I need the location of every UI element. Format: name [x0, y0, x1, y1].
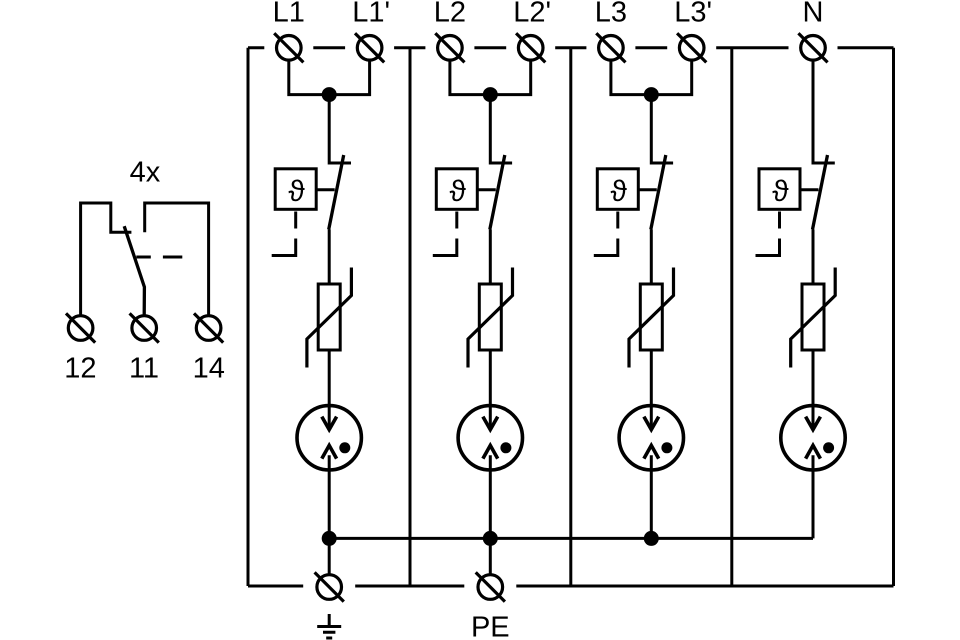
channel partition 1: [409, 48, 412, 586]
spark gap upper arrow: [483, 417, 498, 430]
svg-text:4x: 4x: [130, 156, 161, 188]
thermal disconnect switch blade F3: [651, 155, 666, 230]
wire bus to earth terminal: [328, 538, 331, 574]
mechanical linkage dashes: [433, 212, 457, 256]
wire bus to PE terminal: [489, 538, 492, 574]
svg-text:ϑ: ϑ: [449, 175, 466, 208]
wire L3 to junction: [611, 60, 651, 95]
spark gap lower arrow: [322, 445, 337, 458]
wire sensor to blade: [800, 188, 819, 191]
thermal disconnect switch blade F4: [813, 155, 828, 230]
svg-text:L1': L1': [352, 0, 390, 28]
thermal disconnect switch blade F1: [329, 155, 344, 230]
svg-text:L3: L3: [595, 0, 627, 28]
wire L2 to junction: [450, 60, 490, 95]
junction node L1/L1': [322, 87, 337, 102]
terminal 12: [68, 316, 93, 341]
svg-text:PE: PE: [471, 612, 510, 640]
terminal L1: [277, 36, 302, 61]
enclosure left edge: [247, 48, 250, 586]
varistor MOV1 diagonal: [307, 268, 352, 368]
terminal L2': [518, 36, 543, 61]
varistor MOV3 body: [640, 284, 662, 350]
svg-text:ϑ: ϑ: [772, 175, 789, 208]
varistor MOV4 diagonal: [791, 268, 836, 368]
spark gap indicator dot: [661, 442, 672, 453]
wire L2' to junction: [490, 60, 530, 95]
varistor MOV4 body: [802, 284, 824, 350]
svg-text:11: 11: [129, 352, 159, 384]
spark gap upper arrow: [806, 417, 821, 430]
svg-text:ϑ: ϑ: [610, 175, 627, 208]
thermal sensor box ϑ F2: [436, 169, 477, 210]
svg-text:N: N: [803, 0, 824, 28]
terminal L1': [357, 36, 382, 61]
spark gap lower arrow: [483, 445, 498, 458]
enclosure right edge: [892, 48, 895, 586]
spark gap indicator dot: [823, 442, 834, 453]
terminal L3': [679, 36, 704, 61]
varistor MOV3 diagonal: [629, 268, 674, 368]
wire switch to varistor: [328, 230, 331, 285]
terminal N: [801, 36, 826, 61]
PE bus junction node 2: [483, 531, 498, 546]
channel partition 2: [569, 48, 572, 586]
svg-text:L2: L2: [434, 0, 466, 28]
wire junction to disconnect switch: [329, 95, 351, 163]
mechanical linkage dashes: [272, 212, 296, 256]
wire varistor to spark gap: [489, 350, 492, 429]
enclosure top edge (dashed through terminals): [248, 46, 894, 49]
terminal L2: [438, 36, 463, 61]
terminal 14: [196, 316, 221, 341]
spark gap lower arrow: [644, 445, 659, 458]
spark gap / GDT circle F3: [619, 406, 683, 470]
terminal L3: [599, 36, 624, 61]
varistor MOV2 body: [479, 284, 501, 350]
PE bus junction node 1: [322, 531, 337, 546]
PE bus wire: [329, 537, 813, 540]
wire L1' to junction: [329, 60, 369, 95]
PE bus junction node 3: [644, 531, 659, 546]
wire switch to varistor: [489, 230, 492, 285]
thermal disconnect switch blade F2: [490, 155, 505, 230]
enclosure bottom edge (dashed through terminals): [248, 585, 894, 588]
svg-text:14: 14: [193, 352, 225, 384]
thermal sensor box ϑ F3: [597, 169, 638, 210]
PE terminal: [478, 575, 503, 600]
mechanical linkage dashes: [756, 212, 780, 256]
thermal sensor box ϑ F4: [759, 169, 800, 210]
remote contact: branch to terminal 14 (NO contact): [145, 203, 209, 316]
earth ground symbol: [317, 614, 341, 638]
svg-text:L3': L3': [674, 0, 712, 28]
wire switch to varistor: [812, 230, 815, 285]
spark gap upper arrow: [322, 417, 337, 430]
spark gap indicator dot: [500, 442, 511, 453]
spark gap lower arrow: [806, 445, 821, 458]
wire junction to disconnect switch: [490, 95, 512, 163]
remote contact: branch to terminal 12 (NC contact): [81, 203, 132, 316]
mechanical linkage dashes: [594, 212, 618, 256]
spark gap upper arrow: [644, 417, 659, 430]
wire switch to varistor: [650, 230, 653, 285]
wire N to disconnect switch: [813, 60, 835, 164]
junction node L2/L2': [483, 87, 498, 102]
wire varistor to spark gap: [812, 350, 815, 429]
varistor MOV2 diagonal: [468, 268, 513, 368]
wire sensor to blade: [316, 188, 335, 191]
spark gap / GDT circle F1: [297, 406, 361, 470]
wire junction to disconnect switch: [651, 95, 673, 163]
svg-text:12: 12: [64, 352, 96, 384]
terminal 11: [132, 316, 157, 341]
wire sensor to blade: [477, 188, 496, 191]
spark gap indicator dot: [339, 442, 350, 453]
thermal sensor box ϑ F1: [275, 169, 316, 210]
svg-text:L1: L1: [273, 0, 305, 28]
wire L3' to junction: [651, 60, 691, 95]
remote contact: common blade from terminal 11: [124, 226, 144, 315]
channel partition 3: [730, 48, 733, 586]
spark gap / GDT circle F2: [458, 406, 522, 470]
junction node L3/L3': [644, 87, 659, 102]
wire spark gap to PE bus: [328, 455, 331, 538]
svg-text:ϑ: ϑ: [288, 175, 305, 208]
wire varistor to spark gap: [328, 350, 331, 429]
wire spark gap to PE bus: [650, 455, 653, 538]
svg-text:L2': L2': [513, 0, 551, 28]
earth terminal: [317, 575, 342, 600]
wire spark gap to PE bus: [812, 455, 815, 538]
wire sensor to blade: [638, 188, 657, 191]
wire spark gap to PE bus: [489, 455, 492, 538]
spark gap / GDT circle F4: [781, 406, 845, 470]
wire varistor to spark gap: [650, 350, 653, 429]
remote contact: actuator dashed link: [136, 256, 182, 259]
varistor MOV1 body: [318, 284, 340, 350]
wire L1 to junction: [289, 60, 329, 95]
